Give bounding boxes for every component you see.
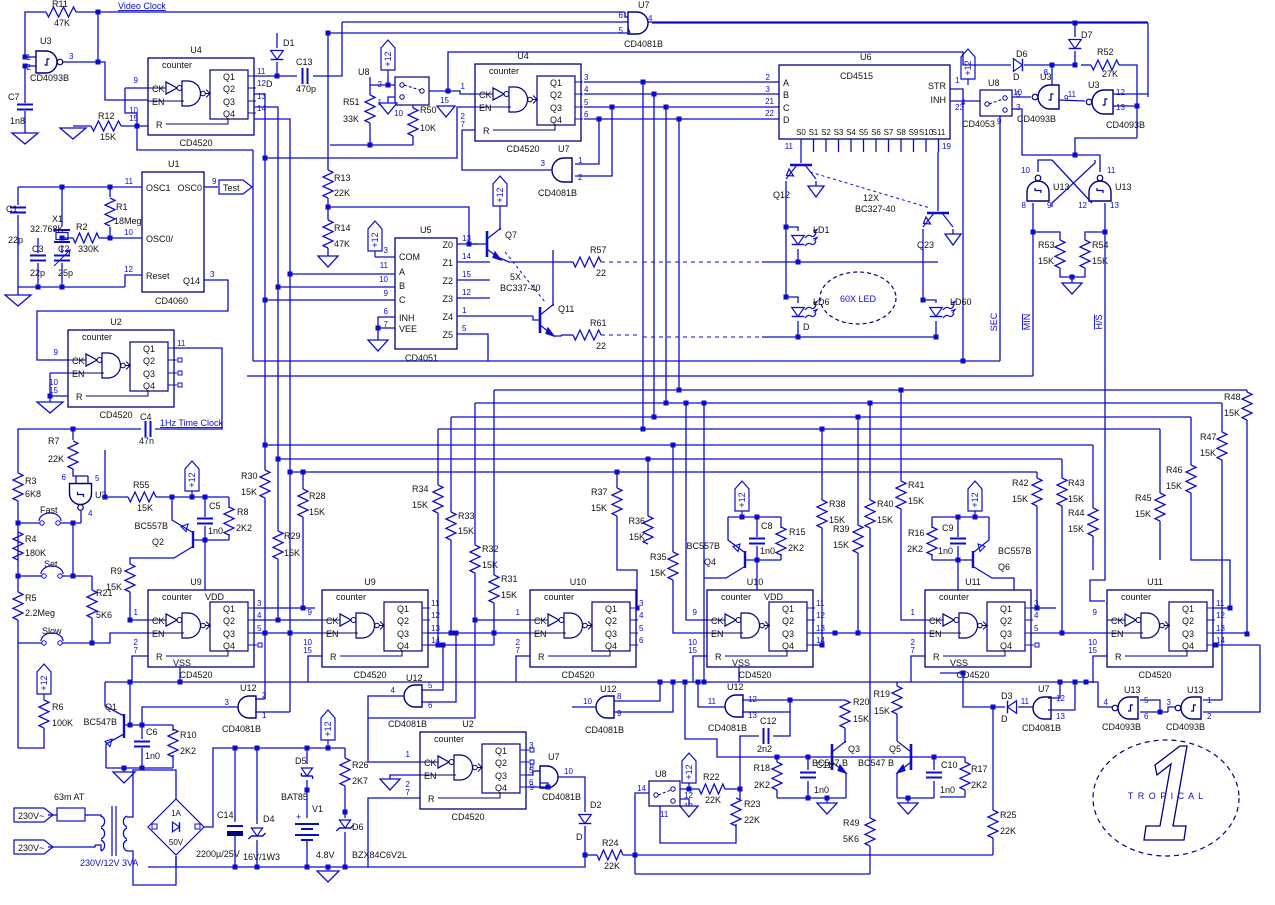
svg-text:A: A: [399, 267, 405, 277]
resistor R19: [896, 682, 898, 686]
svg-text:11: 11: [816, 599, 825, 608]
svg-text:R25: R25: [1000, 810, 1017, 820]
wire rail 867: [148, 855, 585, 867]
svg-text:R54: R54: [1092, 240, 1109, 250]
svg-text:counter: counter: [82, 332, 112, 342]
svg-text:13: 13: [431, 624, 440, 633]
svg-text:6K8: 6K8: [25, 489, 41, 499]
svg-text:U3: U3: [1088, 80, 1100, 90]
svg-text:Z2: Z2: [442, 276, 453, 286]
svg-text:S4: S4: [846, 128, 856, 137]
svg-text:D: D: [266, 79, 273, 89]
svg-text:R51: R51: [343, 97, 360, 107]
counter U4 first CD4520: [148, 58, 254, 135]
wire Q4-F line: [1213, 644, 1260, 646]
svg-text:15K: 15K: [309, 507, 325, 517]
counter U2 CD4520: [68, 330, 174, 407]
wire Q1 collector: [105, 682, 124, 716]
svg-text:15K: 15K: [629, 532, 645, 542]
svg-text:R8: R8: [237, 507, 249, 517]
wire R39 bot: [857, 553, 859, 633]
svg-text:2K2: 2K2: [236, 523, 252, 533]
svg-text:22: 22: [765, 109, 774, 118]
svg-text:2.2Meg: 2.2Meg: [25, 608, 55, 618]
svg-text:U2: U2: [110, 317, 122, 327]
svg-text:CD4520: CD4520: [179, 670, 212, 680]
svg-text:27K: 27K: [1102, 69, 1118, 79]
resistor R42: [1032, 478, 1042, 506]
resistor R35: [668, 552, 678, 580]
power flag +12 R6: [37, 664, 51, 700]
wire col1222: [1221, 403, 1223, 432]
counter U11 first: [925, 590, 1031, 667]
resistor R21: [87, 590, 97, 618]
wire R-F down: [1093, 656, 1107, 683]
svg-text:X1: X1: [52, 214, 63, 224]
resistor R10: [172, 725, 174, 731]
wire QB: [584, 93, 779, 95]
wire pin13: [1113, 105, 1137, 107]
svg-text:OSC1: OSC1: [146, 183, 171, 193]
wire: [125, 275, 142, 287]
svg-text:C14: C14: [217, 810, 234, 820]
svg-text:CD4520: CD4520: [179, 138, 212, 148]
svg-text:15K: 15K: [591, 503, 607, 513]
diode D1: [276, 33, 278, 48]
svg-text:R43: R43: [1068, 478, 1085, 488]
svg-text:U7: U7: [638, 0, 650, 10]
op-amp U13 gate C CD4093B: [1112, 697, 1138, 719]
node: [1084, 680, 1089, 685]
svg-text:63m AT: 63m AT: [54, 792, 85, 802]
wire U13e feed: [1086, 682, 1114, 707]
svg-text:R: R: [428, 794, 435, 804]
svg-text:counter: counter: [162, 60, 192, 70]
svg-text:CD4520: CD4520: [561, 670, 594, 680]
wire: [940, 790, 965, 797]
svg-text:47K: 47K: [54, 18, 70, 28]
wire U5 C: [265, 299, 395, 301]
transistor Q11 BC337: [540, 304, 554, 336]
svg-text:1: 1: [406, 750, 411, 759]
switch U8 CD4053: [980, 90, 1012, 116]
svg-text:Q3: Q3: [223, 97, 235, 107]
wire: [584, 826, 586, 855]
svg-text:R52: R52: [1097, 47, 1114, 57]
wire U13f out2: [1203, 645, 1260, 712]
wire: [17, 620, 19, 643]
svg-text:+12: +12: [39, 675, 49, 690]
op-amp U3 gate C CD4093B: [1032, 85, 1059, 109]
LED LD1: [786, 227, 798, 231]
svg-text:Q2: Q2: [1182, 616, 1194, 626]
svg-text:12X: 12X: [863, 193, 879, 203]
resistor R53: [1033, 232, 1060, 240]
capacitor C7: [24, 66, 26, 103]
ground: [826, 798, 828, 803]
wire: [313, 22, 342, 76]
svg-text:R2: R2: [76, 222, 88, 232]
svg-text:CD4081B: CD4081B: [585, 725, 624, 735]
svg-text:Q2: Q2: [605, 616, 617, 626]
wire Q6 collector: [974, 567, 1014, 590]
diode D5 BAT85: [306, 748, 308, 764]
wire: [18, 215, 125, 287]
counter U9 second: [322, 590, 428, 667]
wire: [125, 87, 148, 89]
wire rail y682: [105, 681, 1092, 683]
wire U4a Q4 col: [254, 119, 290, 712]
wire col822: [821, 429, 823, 500]
wire R-C down: [516, 656, 530, 682]
svg-text:Q1: Q1: [143, 344, 155, 354]
svg-text:Q12: Q12: [773, 190, 790, 200]
wire Q3-F line: [1213, 632, 1247, 634]
svg-text:Video Clock: Video Clock: [118, 1, 166, 11]
svg-text:EN: EN: [152, 97, 165, 107]
wire Z0: [457, 243, 478, 245]
svg-text:D: D: [1001, 714, 1008, 724]
svg-text:CK: CK: [534, 616, 547, 626]
svg-text:CD4520: CD4520: [353, 670, 386, 680]
wire: [617, 516, 637, 608]
svg-text:12: 12: [124, 265, 133, 274]
svg-text:1: 1: [911, 608, 916, 617]
bus MIN line: [247, 375, 1033, 377]
capacitor C8: [756, 517, 758, 537]
svg-text:R38: R38: [829, 499, 846, 509]
resistor R1: [109, 187, 111, 197]
svg-text:Q4: Q4: [223, 109, 235, 119]
svg-text:Q2: Q2: [223, 616, 235, 626]
diode D4 zener: [256, 748, 258, 824]
wire EN gnd: [390, 775, 420, 779]
wire R40 bot: [869, 528, 871, 818]
svg-text:19: 19: [942, 142, 951, 151]
transistor Q2 BC557: [192, 531, 194, 548]
svg-text:6: 6: [384, 307, 389, 316]
svg-text:BAT85: BAT85: [281, 792, 308, 802]
wire: [1075, 155, 1100, 172]
svg-text:LD60: LD60: [950, 297, 972, 307]
svg-text:22K: 22K: [705, 795, 721, 805]
svg-text:22K: 22K: [1000, 826, 1016, 836]
wire B.Q3 to C.EN: [494, 632, 530, 634]
svg-text:C13: C13: [296, 57, 313, 67]
svg-text:15K: 15K: [877, 515, 893, 525]
wire: [344, 832, 346, 867]
svg-text:C: C: [783, 103, 790, 113]
svg-text:1: 1: [134, 608, 139, 617]
svg-text:15K: 15K: [501, 590, 517, 600]
wire: [922, 229, 924, 300]
wire Z2: [457, 279, 490, 281]
wire VDD U11: [957, 560, 959, 590]
wire R46 bot: [1191, 493, 1230, 608]
capacitor C9: [957, 517, 959, 537]
svg-text:3: 3: [584, 73, 589, 82]
svg-text:100K: 100K: [52, 718, 73, 728]
resistor R17: [964, 757, 966, 762]
wire: [728, 516, 781, 518]
svg-text:counter: counter: [434, 734, 464, 744]
wire Q11 collector: [552, 250, 554, 306]
wire U12c in8: [614, 682, 660, 701]
wire: [725, 788, 740, 790]
svg-text:22: 22: [596, 341, 606, 351]
svg-text:13: 13: [1116, 103, 1125, 112]
svg-text:C7: C7: [8, 92, 20, 102]
svg-text:10: 10: [379, 275, 388, 284]
node: [784, 295, 789, 300]
svg-text:11: 11: [257, 67, 266, 76]
svg-text:5K6: 5K6: [96, 610, 112, 620]
svg-text:R41: R41: [908, 480, 925, 490]
wire col1160: [1159, 429, 1161, 493]
svg-text:8: 8: [1044, 68, 1049, 77]
transistor Q12 BC327: [800, 152, 802, 163]
net flag Test: [204, 186, 218, 188]
svg-text:3: 3: [225, 698, 230, 707]
svg-text:15: 15: [303, 646, 312, 655]
svg-text:1n0: 1n0: [814, 785, 829, 795]
svg-text:Q2: Q2: [397, 616, 409, 626]
svg-text:4: 4: [391, 686, 396, 695]
wire: [821, 528, 823, 645]
svg-text:R50: R50: [420, 105, 437, 115]
svg-text:R: R: [715, 652, 722, 662]
svg-text:EN: EN: [72, 369, 85, 379]
resistor R52: [1091, 60, 1119, 70]
svg-text:R: R: [483, 126, 490, 136]
svg-text:Q23: Q23: [917, 240, 934, 250]
net SEC: [999, 118, 1001, 361]
svg-text:Q3: Q3: [397, 629, 409, 639]
svg-text:1: 1: [461, 82, 466, 91]
svg-text:INH: INH: [399, 313, 415, 323]
resistor R9: [125, 564, 135, 592]
svg-text:R: R: [330, 652, 337, 662]
switch U8 bottom: [649, 781, 680, 806]
svg-text:15K: 15K: [1068, 494, 1084, 504]
svg-text:60X LED: 60X LED: [840, 294, 877, 304]
wire Q1-F stub: [1213, 607, 1230, 609]
svg-text:15: 15: [462, 270, 471, 279]
wire D.Q3 to E.EN: [858, 632, 925, 634]
wire INH: [950, 100, 980, 102]
op-amp U12 gate D CD4081B: [725, 695, 743, 717]
svg-text:BC557B: BC557B: [686, 541, 720, 551]
svg-text:S6: S6: [871, 128, 881, 137]
wire bridge out+: [204, 748, 345, 827]
resistor R29: [273, 531, 283, 559]
svg-text:10: 10: [1021, 166, 1030, 175]
transistor Q1 BC547: [123, 714, 125, 738]
resistor R3: [13, 473, 23, 501]
resistor R46: [1186, 465, 1196, 493]
ground: [379, 103, 397, 114]
svg-text:14: 14: [431, 636, 440, 645]
bus line y417: [451, 416, 1191, 418]
svg-text:R24: R24: [602, 838, 619, 848]
svg-text:Q2: Q2: [223, 84, 235, 94]
svg-text:4: 4: [648, 14, 653, 23]
wire col1037: [1036, 472, 1038, 478]
svg-text:CK: CK: [479, 90, 492, 100]
counter U10 first: [530, 590, 636, 667]
svg-text:Q4: Q4: [495, 783, 507, 793]
wire Q3 collector: [844, 728, 846, 743]
svg-text:R7: R7: [48, 436, 60, 446]
resistor R22: [699, 784, 725, 794]
resistor R57: [573, 257, 601, 267]
svg-text:EN: EN: [1111, 629, 1124, 639]
IC U5 CD4051: [395, 238, 457, 349]
svg-text:S3: S3: [834, 128, 844, 137]
svg-text:R11: R11: [52, 0, 68, 9]
svg-text:10K: 10K: [420, 123, 436, 133]
svg-text:1n0: 1n0: [940, 785, 955, 795]
ground U8c: [680, 799, 689, 806]
svg-text:R34: R34: [412, 484, 429, 494]
wire U12b in5: [421, 645, 443, 690]
wire U4b R from U7b: [462, 130, 552, 170]
wire CK-D feed: [684, 401, 689, 406]
wire: [25, 12, 46, 57]
svg-text:Q3: Q3: [1182, 629, 1194, 639]
svg-text:12: 12: [1216, 611, 1225, 620]
svg-text:CD4053: CD4053: [962, 119, 995, 129]
svg-text:+: +: [296, 812, 301, 822]
wire: [1246, 420, 1248, 634]
wire Q2 collector: [130, 547, 192, 564]
wire Q2-A to CK-B: [254, 619, 322, 621]
svg-text:5: 5: [95, 474, 100, 483]
svg-text:counter: counter: [721, 592, 751, 602]
wire R35 top: [671, 443, 676, 448]
svg-text:D6: D6: [352, 822, 364, 832]
wire VDD U9: [204, 540, 206, 590]
wire: [368, 573, 475, 762]
wire base Q11: [533, 316, 540, 320]
svg-text:CD4081B: CD4081B: [708, 723, 747, 733]
svg-text:3: 3: [257, 599, 262, 608]
svg-text:R40: R40: [877, 499, 894, 509]
svg-text:15K: 15K: [100, 132, 116, 142]
resistor R14: [323, 220, 333, 248]
svg-text:12: 12: [1116, 88, 1125, 97]
wire Q3-D line: [813, 632, 858, 634]
svg-text:1A: 1A: [171, 809, 181, 818]
svg-text:5: 5: [639, 624, 644, 633]
wire U4b EN: [265, 107, 475, 158]
capacitor C13: [303, 68, 308, 84]
wire Q1-E line: [1031, 607, 1056, 609]
svg-text:CD4060: CD4060: [155, 296, 188, 306]
resistor R31: [489, 575, 499, 603]
wire STR: [950, 89, 963, 361]
wire R: [368, 798, 420, 867]
svg-text:11: 11: [1216, 599, 1225, 608]
svg-text:Q6: Q6: [998, 562, 1010, 572]
svg-text:EN: EN: [152, 629, 165, 639]
svg-text:Q1: Q1: [495, 746, 507, 756]
wire R13 tap to Z0: [328, 207, 469, 244]
svg-text:Q2: Q2: [152, 537, 164, 547]
svg-text:3: 3: [766, 85, 771, 94]
svg-text:Q3: Q3: [782, 629, 794, 639]
svg-text:D: D: [803, 322, 810, 332]
wire U7c in9: [528, 783, 548, 787]
op-amp U13 gate B CD4093B: [1089, 175, 1111, 201]
wire U13e out5: [1140, 700, 1160, 712]
wire D3 feed: [940, 673, 1005, 707]
svg-text:C3: C3: [32, 244, 44, 254]
svg-text:STR: STR: [928, 81, 947, 91]
wire U12c out: [572, 706, 596, 708]
svg-text:BC547 B: BC547 B: [812, 758, 848, 768]
op-amp U7 gate C CD4081B: [540, 766, 558, 788]
svg-text:3: 3: [529, 741, 534, 750]
svg-text:12: 12: [462, 288, 471, 297]
LED LD6: [786, 297, 798, 303]
svg-text:OSC0/: OSC0/: [146, 234, 174, 244]
svg-text:R53: R53: [1038, 240, 1055, 250]
wire: [73, 428, 141, 430]
diode D2: [579, 815, 592, 824]
svg-text:2K2: 2K2: [788, 543, 804, 553]
svg-text:Q4: Q4: [605, 641, 617, 651]
capacitor C5: [204, 497, 206, 517]
svg-text:+12: +12: [970, 492, 980, 507]
svg-text:9: 9: [1047, 201, 1052, 210]
svg-text:U2: U2: [462, 719, 474, 729]
wire: [109, 227, 111, 238]
resistor R54: [1085, 232, 1105, 240]
svg-text:U13: U13: [1124, 685, 1141, 695]
wire U5 INH: [378, 317, 395, 328]
wire Q3-A line: [254, 632, 322, 634]
wire R-D down: [693, 656, 707, 682]
wire: [327, 198, 329, 220]
bus line y429: [438, 428, 1160, 430]
svg-text:Q4: Q4: [704, 557, 716, 567]
svg-text:CD4081B: CD4081B: [1022, 723, 1061, 733]
wire: [1061, 506, 1063, 633]
svg-text:+12: +12: [323, 721, 333, 736]
svg-text:21: 21: [765, 97, 774, 106]
wire col1247: [1246, 390, 1248, 392]
wire: [1075, 138, 1137, 155]
ground: [73, 125, 91, 127]
svg-text:Q4: Q4: [143, 381, 155, 391]
svg-text:R6: R6: [52, 702, 64, 712]
svg-text:22p: 22p: [8, 235, 23, 245]
svg-text:4: 4: [961, 98, 966, 107]
svg-text:4: 4: [257, 611, 262, 620]
wire: [50, 372, 68, 374]
op-amp U13 gate D CD4093B: [1175, 697, 1201, 719]
svg-text:CD4093B: CD4093B: [1102, 722, 1141, 732]
wire R57 dashed: [601, 261, 640, 263]
svg-text:33K: 33K: [343, 114, 359, 124]
svg-text:15K: 15K: [833, 540, 849, 550]
wire col475: [474, 403, 476, 545]
wire: [1024, 64, 1075, 66]
svg-text:3: 3: [69, 52, 74, 61]
svg-text:6: 6: [584, 110, 589, 119]
svg-text:15K: 15K: [853, 714, 869, 724]
